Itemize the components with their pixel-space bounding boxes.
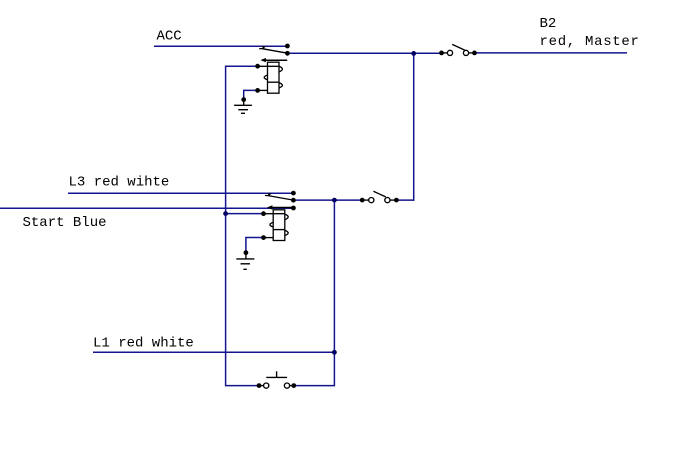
relay K1 coil terminal 2 dot — [255, 88, 260, 93]
relay K1 coil — [258, 62, 283, 93]
relay K1 contact lower dot — [285, 51, 290, 56]
switch S1 master left dot — [439, 51, 444, 56]
wire vertical bus left — [226, 66, 259, 385]
relay K1 actuator arrow — [260, 58, 287, 62]
switch S2 left circle — [369, 198, 374, 203]
wire vertical B2-to-middle — [413, 53, 415, 200]
wire Start horizontal — [0, 207, 293, 209]
junction dot B2/vertical — [411, 51, 416, 56]
wire middle horizontal right — [396, 199, 414, 201]
switch S1 lever — [452, 44, 465, 50]
wire relay K1 coil to ground — [244, 90, 258, 99]
junction dot L1/vertical — [332, 350, 337, 355]
relay K2 actuator arrow — [267, 205, 293, 209]
pushbutton S3 connector right — [290, 385, 294, 387]
wire L1 horizontal — [93, 351, 334, 353]
relay K2 contact lever — [265, 193, 293, 200]
svg-text:B2: B2 — [540, 16, 557, 32]
relay K1 contact upper dot — [285, 44, 290, 49]
switch S2 connector right — [390, 199, 396, 201]
junction dot middle/vertical — [332, 198, 337, 203]
relay K2 contact lower dot — [291, 198, 296, 203]
switch S2 lever — [373, 191, 385, 197]
ground relay K2 — [236, 250, 254, 269]
junction dot K2 coil bus — [223, 211, 228, 216]
wire ACC horizontal — [154, 45, 287, 47]
svg-text:Start Blue: Start Blue — [23, 215, 107, 231]
relay K2 coil terminal 1 dot — [261, 211, 266, 216]
switch S1 connector left — [442, 52, 448, 54]
wire middle horizontal left — [293, 199, 362, 201]
node Start wire end dot — [291, 206, 296, 211]
relay K1 contact lever — [259, 46, 287, 53]
wire relay K2 coil to ground — [246, 238, 264, 253]
wire vertical middle-to-pushbutton — [294, 200, 335, 386]
switch S1 connector right — [469, 52, 475, 54]
wire B2 horizontal — [287, 52, 441, 54]
wire B2 horizontal right of switch — [475, 52, 628, 54]
wire relay K2 coil terminal — [226, 213, 264, 215]
pushbutton S3 right dot — [291, 383, 296, 388]
wire L3 horizontal — [68, 192, 293, 194]
svg-text:red, Master: red, Master — [540, 34, 640, 50]
pushbutton S3 actuator — [266, 371, 287, 377]
switch S2 right circle — [385, 198, 390, 203]
svg-text:L1 red white: L1 red white — [93, 335, 194, 351]
ground relay K1 — [234, 97, 252, 113]
pushbutton S3 left circle — [264, 383, 269, 388]
relay K1 coil terminal 1 dot — [255, 64, 260, 69]
pushbutton S3 right circle — [284, 383, 289, 388]
switch S2 right dot — [394, 198, 399, 203]
relay K2 contact upper dot — [291, 191, 296, 196]
pushbutton S3 left dot — [257, 383, 262, 388]
relay K2 coil terminal 2 dot — [261, 235, 266, 240]
svg-text:L3 red wihte: L3 red wihte — [69, 174, 170, 190]
relay K2 coil — [264, 210, 289, 241]
switch S2 connector left — [362, 199, 368, 201]
switch S1 right circle — [463, 50, 468, 55]
switch S1 left circle — [447, 50, 452, 55]
switch S2 left dot — [360, 198, 365, 203]
pushbutton S3 connector left — [259, 385, 264, 387]
svg-text:ACC: ACC — [157, 29, 182, 45]
switch S1 right dot — [472, 51, 477, 56]
